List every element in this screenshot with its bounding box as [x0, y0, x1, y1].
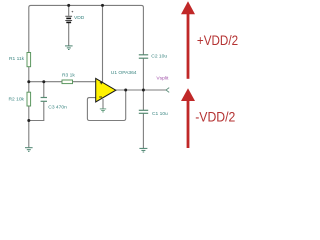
battery V1 VDD	[65, 16, 72, 23]
wire VDD battery top lead	[68, 5, 70, 15]
ground bottom right	[139, 148, 147, 152]
ground bottom left	[25, 148, 33, 152]
node junction right column on output	[142, 89, 145, 92]
op-amp U1 triangle	[96, 78, 116, 102]
svg-text:Vsplit: Vsplit	[156, 76, 169, 82]
arrow +VDD/2	[181, 1, 195, 79]
ground below op-amp	[100, 109, 106, 112]
node junction top rail op-amp supply	[101, 4, 104, 7]
svg-text:C1 10u: C1 10u	[152, 111, 168, 117]
ground below battery	[65, 46, 73, 50]
resistor R2	[27, 92, 31, 106]
battery polarity plus mark	[72, 11, 74, 13]
node junction left column middle tee	[27, 80, 30, 83]
svg-text:-VDD/2: -VDD/2	[195, 109, 235, 125]
svg-text:R3 1k: R3 1k	[62, 73, 75, 79]
node junction left column bottom tee	[27, 119, 30, 122]
wire C3 top lead	[43, 82, 45, 97]
node junction top rail battery	[67, 4, 70, 7]
capacitor C3	[41, 98, 47, 102]
arrow -VDD/2	[181, 88, 195, 148]
wire op-amp output to Vsplit terminal	[116, 89, 167, 91]
svg-text:C2 10u: C2 10u	[151, 54, 167, 60]
resistor R1	[27, 53, 31, 67]
node junction feedback tap on output	[124, 89, 127, 92]
wire C3 bottom lead and tee to left column	[29, 102, 44, 121]
wire top rail	[29, 5, 144, 54]
svg-text:R2 10k: R2 10k	[9, 97, 25, 103]
op-amp plus input mark	[100, 81, 103, 84]
svg-text:U1 OPA364: U1 OPA364	[111, 70, 137, 76]
svg-text:C3 470n: C3 470n	[48, 104, 67, 110]
wire right column C1 lower lead to ground	[142, 113, 144, 148]
capacitor C2	[139, 55, 148, 58]
wire VDD battery bottom lead to ground	[68, 23, 70, 46]
wire right column C2 upper lead	[142, 58, 144, 110]
wire op-amp negative supply lead to ground	[102, 99, 104, 109]
svg-text:R1 11k: R1 11k	[9, 56, 25, 62]
op-amp minus input mark	[99, 96, 102, 98]
svg-text:VDD: VDD	[74, 15, 85, 21]
wire left column bottom	[28, 106, 30, 147]
wire middle horizontal to R3 and op-amp + input	[29, 81, 62, 83]
resistor R3	[62, 80, 73, 84]
wire left column middle	[28, 67, 30, 93]
Vsplit open terminal chevron	[166, 88, 169, 93]
node junction C3 top tap	[42, 80, 45, 83]
capacitor C1	[139, 110, 148, 113]
svg-text:+VDD/2: +VDD/2	[197, 32, 238, 48]
wire op-amp positive supply from top rail	[102, 5, 104, 82]
wire feedback loop output to inverting input	[87, 90, 125, 121]
